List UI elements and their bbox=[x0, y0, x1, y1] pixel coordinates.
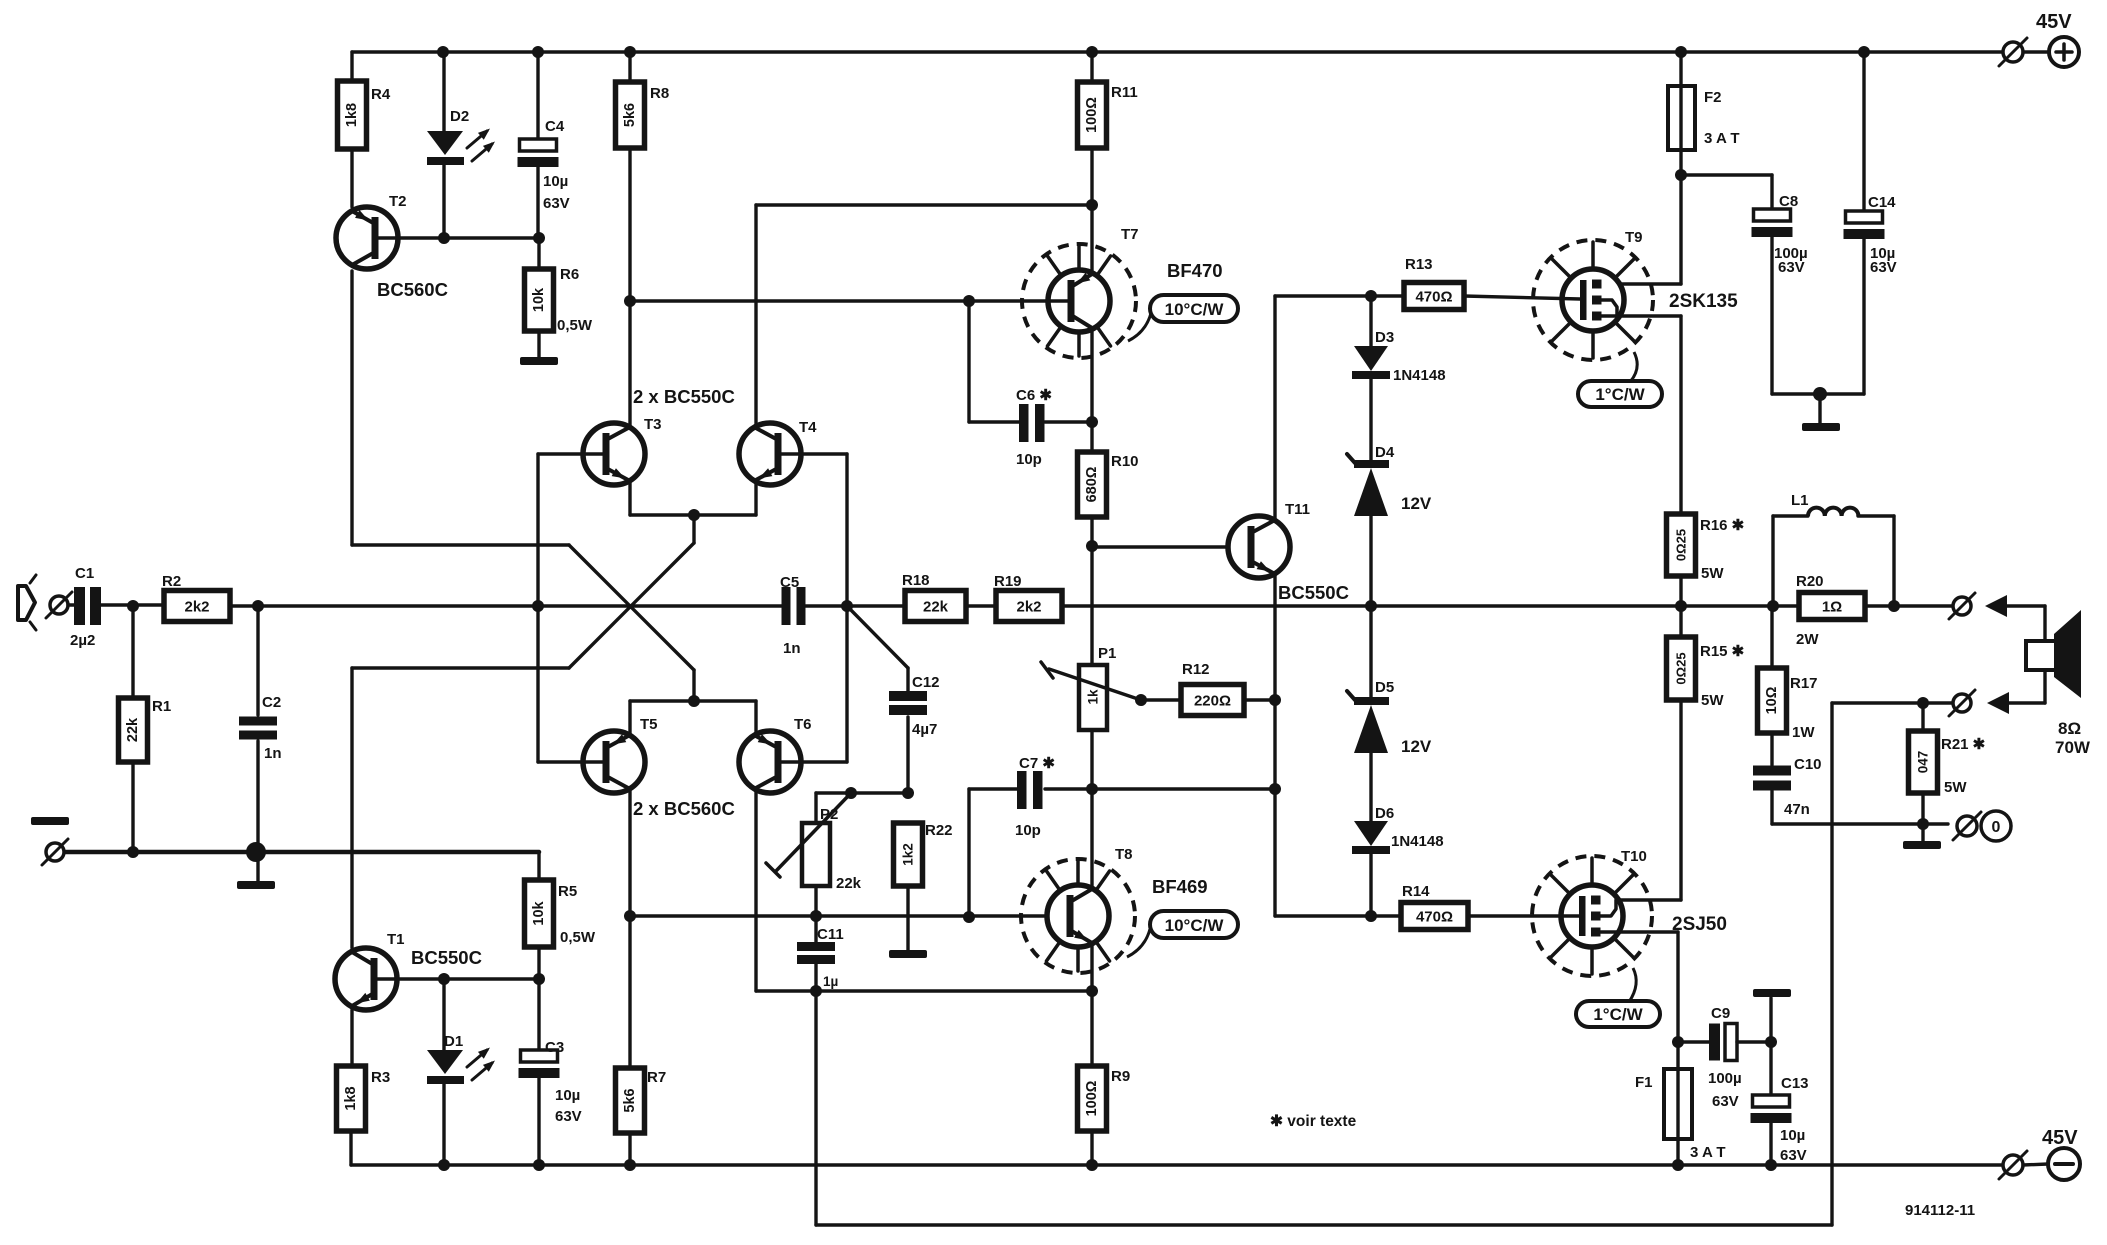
label 2 x BC560C bbox=[633, 798, 735, 819]
svg-text:5k6: 5k6 bbox=[622, 103, 638, 127]
LED D1 bbox=[427, 979, 495, 1165]
capacitor C4 10u 63V bbox=[518, 52, 570, 238]
svg-text:R2: R2 bbox=[162, 573, 181, 590]
svg-text:R3: R3 bbox=[371, 1069, 390, 1086]
svg-text:63V: 63V bbox=[543, 195, 570, 212]
svg-text:2µ2: 2µ2 bbox=[70, 632, 95, 649]
svg-text:BC550C: BC550C bbox=[411, 947, 482, 968]
transistor T8 BF469 bbox=[1047, 789, 1208, 947]
svg-text:T10: T10 bbox=[1621, 848, 1647, 865]
svg-text:2k2: 2k2 bbox=[1016, 599, 1041, 616]
svg-text:2SJ50: 2SJ50 bbox=[1672, 914, 1727, 935]
output line to speaker terminal bbox=[1894, 604, 1953, 607]
capacitor C3 10u 63V bbox=[519, 979, 582, 1165]
top +45V supply rail bbox=[352, 50, 2003, 53]
svg-text:R5: R5 bbox=[558, 883, 577, 900]
svg-text:R22: R22 bbox=[925, 822, 953, 839]
capacitor C1 2u2 bbox=[68, 565, 164, 649]
cross-coupling wire from T1 to T3/T4 emitters bbox=[352, 515, 694, 668]
resistor R4 1k8 bbox=[338, 52, 391, 207]
wire R15 to T10 source bbox=[1601, 700, 1681, 900]
svg-text:F1: F1 bbox=[1635, 1074, 1653, 1091]
svg-text:3 A T: 3 A T bbox=[1690, 1144, 1726, 1161]
svg-text:047: 047 bbox=[1916, 751, 1931, 774]
junction dots L1/R20 bbox=[1767, 600, 1900, 612]
svg-text:BF470: BF470 bbox=[1167, 260, 1223, 281]
T9 can dashed circle bbox=[1533, 240, 1653, 360]
junction dots on +45V rail bbox=[437, 46, 1870, 58]
svg-text:8Ω: 8Ω bbox=[2058, 719, 2081, 738]
svg-text:R4: R4 bbox=[371, 86, 391, 103]
capacitor C8 100u 63V bbox=[1752, 175, 1808, 394]
resistor R12 220R bbox=[1181, 661, 1275, 716]
svg-text:914112-11: 914112-11 bbox=[1905, 1202, 1975, 1219]
T10 can dashed circle bbox=[1532, 856, 1652, 976]
svg-text:1k: 1k bbox=[1086, 689, 1101, 705]
svg-text:✱ voir texte: ✱ voir texte bbox=[1270, 1113, 1357, 1130]
svg-text:C5: C5 bbox=[780, 574, 799, 591]
svg-text:10µ: 10µ bbox=[555, 1087, 580, 1104]
svg-text:F2: F2 bbox=[1704, 89, 1722, 106]
svg-text:220Ω: 220Ω bbox=[1194, 693, 1231, 710]
diode D6 1N4148 bbox=[1352, 753, 1444, 916]
junction dot bias chain on output line bbox=[1365, 600, 1377, 612]
ground terminal bbox=[31, 817, 69, 865]
resistor R19 2k2 bbox=[994, 573, 1062, 622]
svg-text:63V: 63V bbox=[1780, 1147, 1807, 1164]
svg-text:0,5W: 0,5W bbox=[560, 929, 596, 946]
svg-text:2W: 2W bbox=[1796, 631, 1819, 648]
svg-text:2 x BC560C: 2 x BC560C bbox=[633, 798, 735, 819]
svg-text:R18: R18 bbox=[902, 572, 930, 589]
wire T1 collector bbox=[350, 668, 353, 948]
svg-text:1k8: 1k8 bbox=[344, 103, 360, 127]
label 8 ohm 70W bbox=[2055, 719, 2091, 757]
resistor R6 10k 0,5W bbox=[525, 238, 593, 334]
svg-text:63V: 63V bbox=[1712, 1093, 1739, 1110]
resistor R9 100R bbox=[1078, 1066, 1131, 1165]
wire T9 source to R16 bbox=[1601, 316, 1681, 514]
transistor T2 BC560C bbox=[336, 193, 539, 300]
junction dot output node R16/R15 bbox=[1675, 600, 1687, 612]
svg-text:R12: R12 bbox=[1182, 661, 1210, 678]
svg-text:D1: D1 bbox=[444, 1033, 463, 1050]
resistor R13 470R bbox=[1404, 256, 1464, 310]
capacitor C6 10p bbox=[969, 301, 1098, 468]
svg-text:R17: R17 bbox=[1790, 675, 1818, 692]
svg-text:T7: T7 bbox=[1121, 226, 1139, 243]
resistor R5 10k 0,5W bbox=[525, 852, 596, 979]
wire T11 emitter to R14 line bbox=[1275, 910, 1401, 922]
wire C10 to 0V node bbox=[1772, 818, 1948, 830]
svg-text:1k2: 1k2 bbox=[901, 843, 916, 866]
feedback return wire bbox=[816, 703, 1832, 1225]
ground at 0V node bbox=[1903, 824, 1941, 849]
svg-text:10µ: 10µ bbox=[1780, 1127, 1805, 1144]
bottom -45V supply rail bbox=[351, 1163, 2003, 1166]
svg-text:T2: T2 bbox=[389, 193, 407, 210]
wire to C12 bbox=[847, 606, 908, 693]
svg-text:C8: C8 bbox=[1779, 193, 1798, 210]
wire T2 collector to lower diff pair bbox=[352, 271, 569, 545]
svg-text:C11: C11 bbox=[817, 926, 844, 943]
transistor T3 BC550C bbox=[538, 416, 662, 485]
wire T5 collector down bbox=[624, 788, 636, 1068]
resistor R7 5k6 bbox=[616, 1068, 667, 1165]
svg-text:45V: 45V bbox=[2036, 11, 2072, 33]
T8 heatsink dashed circle bbox=[1021, 859, 1135, 973]
resistor R2 2k2 bbox=[162, 573, 230, 622]
resistor R14 470R bbox=[1401, 883, 1468, 930]
svg-text:T6: T6 bbox=[794, 716, 812, 733]
junction dot F2 bottom branch bbox=[1675, 169, 1772, 181]
zener D4 12V bbox=[1347, 444, 1432, 606]
resistor R20 1R 2W bbox=[1796, 573, 1865, 648]
main signal line to C5 bbox=[230, 600, 785, 612]
svg-text:63V: 63V bbox=[1778, 259, 1805, 276]
svg-text:10°C/W: 10°C/W bbox=[1165, 300, 1225, 319]
badge 1C/W for T10 bbox=[1576, 968, 1660, 1027]
badge 10C/W for T7 bbox=[1128, 295, 1238, 341]
T5/T6 emitter yoke bbox=[630, 695, 756, 736]
trimmer P1 1k bbox=[1041, 645, 1181, 789]
svg-text:2SK135: 2SK135 bbox=[1669, 291, 1738, 312]
label 2 x BC550C bbox=[633, 386, 735, 407]
svg-text:C3: C3 bbox=[545, 1039, 564, 1056]
svg-text:R16 ✱: R16 ✱ bbox=[1700, 517, 1745, 534]
speaker sense line bbox=[1832, 697, 1953, 709]
svg-text:1Ω: 1Ω bbox=[1822, 599, 1842, 616]
capacitor C13 10u 63V bbox=[1751, 1042, 1809, 1165]
resistor R15 0R25 5W bbox=[1667, 606, 1745, 709]
svg-text:1n: 1n bbox=[783, 640, 801, 657]
transistor T6 BC560C bbox=[739, 716, 847, 793]
capacitor C7 10p bbox=[969, 755, 1055, 917]
svg-text:5W: 5W bbox=[1701, 565, 1724, 582]
resistor R3 1k8 bbox=[337, 1010, 391, 1165]
svg-text:C1: C1 bbox=[75, 565, 94, 582]
svg-text:10k: 10k bbox=[531, 900, 547, 925]
diode D3 1N4148 bbox=[1352, 296, 1446, 460]
svg-text:1n: 1n bbox=[264, 745, 282, 762]
resistor R17 10R 1W bbox=[1758, 606, 1818, 741]
wire T11 emitter down bbox=[1269, 575, 1281, 916]
svg-text:45V: 45V bbox=[2042, 1127, 2078, 1149]
svg-text:470Ω: 470Ω bbox=[1416, 909, 1453, 926]
svg-text:R9: R9 bbox=[1111, 1068, 1130, 1085]
svg-text:T11: T11 bbox=[1285, 501, 1310, 518]
svg-text:C4: C4 bbox=[545, 118, 565, 135]
T8 base line bbox=[630, 910, 1070, 923]
mosfet T9 2SK135 bbox=[1464, 229, 1738, 331]
ground return line bbox=[55, 842, 539, 862]
capacitor C11 1u bbox=[797, 916, 844, 991]
resistor R1 22k bbox=[119, 606, 172, 852]
svg-text:100Ω: 100Ω bbox=[1084, 1080, 1100, 1116]
mosfet T10 2SJ50 bbox=[1468, 848, 1727, 947]
T3/T4 emitter yoke bbox=[630, 481, 756, 521]
wire T10 drain to F1 bbox=[1601, 932, 1684, 1069]
resistor R21 0R47 5W bbox=[1909, 703, 1986, 824]
svg-text:L1: L1 bbox=[1791, 492, 1809, 509]
svg-text:C14: C14 bbox=[1868, 194, 1896, 211]
svg-text:2k2: 2k2 bbox=[184, 599, 209, 616]
junction dots on T2 base line bbox=[438, 232, 545, 244]
svg-text:T4: T4 bbox=[799, 419, 817, 436]
speaker - terminal bbox=[1949, 690, 1975, 716]
svg-text:BC560C: BC560C bbox=[377, 279, 448, 300]
resistor R11 100R bbox=[1078, 52, 1138, 205]
svg-text:10k: 10k bbox=[531, 287, 547, 312]
svg-text:63V: 63V bbox=[1870, 259, 1897, 276]
fuse F1 3AT bbox=[1635, 1069, 1726, 1165]
inductor L1 bbox=[1773, 492, 1894, 606]
ground below R22 bbox=[889, 950, 927, 958]
LED D2 bbox=[427, 52, 495, 238]
svg-text:C13: C13 bbox=[1781, 1075, 1809, 1092]
resistor R22 1k2 bbox=[894, 822, 953, 950]
transistor T1 BC550C bbox=[335, 931, 545, 1010]
svg-text:T5: T5 bbox=[640, 716, 658, 733]
resistor R8 5k6 bbox=[616, 52, 670, 301]
bases vertical wire T3/T5 bbox=[536, 454, 539, 762]
svg-text:1N4148: 1N4148 bbox=[1393, 367, 1446, 384]
svg-text:100µ: 100µ bbox=[1708, 1070, 1742, 1087]
svg-text:R8: R8 bbox=[650, 85, 669, 102]
capacitor C5 1n bbox=[780, 574, 905, 657]
svg-text:1°C/W: 1°C/W bbox=[1593, 1005, 1643, 1024]
svg-text:0,5W: 0,5W bbox=[557, 317, 593, 334]
transistor T4 BC550C bbox=[739, 419, 847, 485]
svg-text:R7: R7 bbox=[647, 1069, 666, 1086]
svg-text:BC550C: BC550C bbox=[1278, 582, 1349, 603]
svg-text:T9: T9 bbox=[1625, 229, 1643, 246]
svg-text:2 x BC550C: 2 x BC550C bbox=[633, 386, 735, 407]
svg-text:D3: D3 bbox=[1375, 329, 1394, 346]
node P2 R22 C12 bbox=[816, 787, 914, 799]
svg-text:D2: D2 bbox=[450, 108, 469, 125]
T7 heatsink dashed circle bbox=[1022, 244, 1136, 358]
svg-text:10µ: 10µ bbox=[543, 173, 568, 190]
svg-text:5W: 5W bbox=[1701, 692, 1724, 709]
badge 10C/W for T8 bbox=[1127, 911, 1238, 957]
junction dot input node bbox=[127, 600, 139, 612]
zener D5 12V bbox=[1347, 606, 1432, 756]
45V negative terminal bbox=[1999, 1127, 2080, 1180]
svg-text:1W: 1W bbox=[1792, 724, 1815, 741]
resistor R10 680R bbox=[1078, 329, 1139, 665]
svg-text:1k8: 1k8 bbox=[343, 1086, 359, 1110]
svg-text:5W: 5W bbox=[1944, 779, 1967, 796]
svg-text:470Ω: 470Ω bbox=[1415, 289, 1452, 306]
wire T6 collector down bbox=[754, 788, 757, 991]
wire T3 collector to R8 bbox=[628, 301, 631, 428]
svg-text:R1: R1 bbox=[152, 698, 171, 715]
svg-text:R15 ✱: R15 ✱ bbox=[1700, 643, 1745, 660]
wire F2 to T9 drain bbox=[1601, 175, 1681, 284]
svg-text:5k6: 5k6 bbox=[622, 1088, 638, 1112]
svg-text:C6 ✱: C6 ✱ bbox=[1016, 387, 1052, 404]
trimmer P2 22k bbox=[766, 793, 862, 916]
arrow into - terminal bbox=[1987, 667, 2045, 714]
svg-text:22k: 22k bbox=[836, 875, 862, 892]
capacitor C2 1n bbox=[239, 606, 282, 881]
svg-text:R13: R13 bbox=[1405, 256, 1433, 273]
node line C7 P1 T8-collector bbox=[1045, 783, 1275, 795]
capacitor C12 4u7 bbox=[889, 674, 940, 793]
capacitor C9 100u 63V bbox=[1678, 1005, 1777, 1110]
capacitor C10 47n bbox=[1753, 733, 1822, 824]
svg-text:R11: R11 bbox=[1111, 84, 1138, 101]
speaker + terminal bbox=[1949, 593, 1975, 619]
svg-text:10°C/W: 10°C/W bbox=[1165, 916, 1225, 935]
svg-text:47n: 47n bbox=[1784, 801, 1810, 818]
svg-text:22k: 22k bbox=[125, 717, 141, 742]
0V terminal bbox=[1953, 811, 2011, 841]
fuse F2 3AT bbox=[1668, 52, 1740, 175]
note voir texte bbox=[1270, 1113, 1357, 1130]
svg-text:4µ7: 4µ7 bbox=[912, 721, 937, 738]
svg-text:C2: C2 bbox=[262, 694, 281, 711]
svg-text:12V: 12V bbox=[1401, 494, 1432, 513]
svg-text:0Ω25: 0Ω25 bbox=[1674, 529, 1689, 561]
svg-text:R6: R6 bbox=[560, 266, 579, 283]
junction dot R11 to T4 bbox=[756, 199, 1098, 211]
svg-text:R19: R19 bbox=[994, 573, 1022, 590]
capacitor C14 10u 63V bbox=[1844, 52, 1897, 394]
svg-text:100Ω: 100Ω bbox=[1084, 97, 1100, 133]
main line from R19 to output stage bbox=[1062, 604, 1894, 607]
svg-text:1°C/W: 1°C/W bbox=[1595, 385, 1645, 404]
ground bar below C2 bbox=[237, 881, 275, 889]
cross-coupling wire from T2 to T5/T6 emitters bbox=[569, 545, 694, 701]
svg-text:C9: C9 bbox=[1711, 1005, 1730, 1022]
wire T11 collector to R13 bbox=[1275, 290, 1404, 519]
svg-text:1µ: 1µ bbox=[823, 974, 838, 989]
wire T4 collector riser bbox=[754, 205, 757, 428]
C8 C14 ground node bbox=[1772, 387, 1864, 431]
svg-text:R21 ✱: R21 ✱ bbox=[1941, 736, 1986, 753]
svg-text:70W: 70W bbox=[2055, 738, 2091, 757]
ground above C9 node bbox=[1753, 989, 1791, 1042]
transistor T11 BC550C bbox=[1092, 501, 1349, 603]
svg-text:R10: R10 bbox=[1111, 453, 1139, 470]
svg-text:C10: C10 bbox=[1794, 756, 1822, 773]
svg-text:3 A T: 3 A T bbox=[1704, 130, 1740, 147]
resistor R16 0R25 5W bbox=[1667, 514, 1745, 606]
svg-text:R14: R14 bbox=[1402, 883, 1430, 900]
input terminal bbox=[46, 592, 72, 618]
svg-text:D6: D6 bbox=[1375, 805, 1394, 822]
svg-text:BF469: BF469 bbox=[1152, 876, 1208, 897]
feedback vertical wire T4/T6 bbox=[841, 454, 853, 762]
arrow into + terminal bbox=[1985, 595, 2045, 645]
input connector arrow bbox=[18, 575, 36, 630]
svg-text:P2: P2 bbox=[820, 806, 838, 823]
svg-text:10Ω: 10Ω bbox=[1764, 686, 1780, 714]
ground below R6 bbox=[520, 331, 558, 365]
transistor T5 BC560C bbox=[538, 716, 658, 793]
T6 collector to T8 emitter line bbox=[756, 985, 1098, 997]
junction dots on -45V rail bbox=[438, 1159, 1777, 1171]
svg-text:T8: T8 bbox=[1115, 846, 1133, 863]
svg-text:12V: 12V bbox=[1401, 737, 1432, 756]
svg-text:0: 0 bbox=[1992, 819, 2001, 836]
loudspeaker bbox=[2026, 610, 2081, 698]
svg-text:D4: D4 bbox=[1375, 444, 1395, 461]
svg-text:T1: T1 bbox=[387, 931, 405, 948]
resistor R18 22k bbox=[902, 572, 996, 622]
svg-text:10p: 10p bbox=[1016, 451, 1042, 468]
svg-text:63V: 63V bbox=[555, 1108, 582, 1125]
svg-text:1N4148: 1N4148 bbox=[1391, 833, 1444, 850]
svg-text:R20: R20 bbox=[1796, 573, 1824, 590]
drawing number 914112-11 bbox=[1905, 1202, 1975, 1219]
transistor T7 BF470 bbox=[624, 205, 1223, 332]
svg-text:0Ω25: 0Ω25 bbox=[1674, 652, 1689, 684]
svg-text:C7 ✱: C7 ✱ bbox=[1019, 755, 1055, 772]
svg-text:D5: D5 bbox=[1375, 679, 1394, 696]
badge 1C/W for T9 bbox=[1578, 352, 1662, 407]
svg-text:680Ω: 680Ω bbox=[1084, 466, 1100, 502]
wire T8 emitter to R9 bbox=[1090, 943, 1093, 1066]
svg-text:C12: C12 bbox=[912, 674, 940, 691]
svg-text:P1: P1 bbox=[1098, 645, 1116, 662]
svg-text:10p: 10p bbox=[1015, 822, 1041, 839]
svg-text:T3: T3 bbox=[644, 416, 662, 433]
svg-text:22k: 22k bbox=[923, 599, 949, 616]
45V positive terminal bbox=[1999, 11, 2079, 67]
